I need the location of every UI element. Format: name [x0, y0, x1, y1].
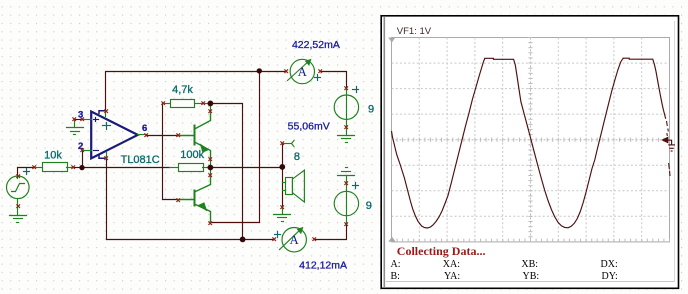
pin mark Q1 collector	[209, 110, 212, 113]
pin mark op-amp pin4	[105, 157, 108, 160]
wire bottom rail from op-amp pin4 riser to ammeter AM2	[107, 159, 275, 240]
plus at AM2	[275, 234, 281, 236]
bottom edge axis ticks	[392, 239, 670, 242]
ground below speaker	[274, 208, 291, 222]
scope 3D inner shading left band	[383, 17, 385, 287]
trigger arrow marker	[661, 137, 668, 144]
ammeter AM2	[280, 228, 307, 252]
svg-text:55,06mV: 55,06mV	[288, 120, 330, 132]
svg-text:VF1: 1V: VF1: 1V	[397, 26, 432, 37]
ground below generator	[10, 207, 27, 223]
wire node A up to op-amp pin 2	[82, 151, 84, 168]
output node junction	[208, 165, 214, 171]
voltage generator VG1	[6, 176, 29, 207]
plus at battery V2	[353, 185, 359, 187]
pin mark AM2 left	[273, 238, 276, 241]
svg-text:DX:: DX:	[601, 259, 618, 270]
svg-text:YA:: YA:	[444, 271, 460, 282]
pin mark Q2 collector	[209, 174, 212, 177]
scope outer box	[381, 16, 678, 289]
plus at AM1	[315, 77, 321, 79]
wire generator VG1 to resistor R1	[18, 168, 35, 177]
battery V2	[334, 183, 358, 224]
pin7 arrow glyph	[99, 111, 104, 114]
table text row 2	[391, 271, 618, 282]
svg-text:XA:: XA:	[443, 259, 460, 270]
Q1 emitter arrowhead	[200, 143, 210, 152]
op-amp U1 TL081C	[82, 111, 147, 159]
center horizontal axis with ticks	[392, 138, 670, 142]
speaker SPK	[283, 170, 305, 202]
teal plus marks	[24, 75, 359, 238]
svg-text:DY:: DY:	[602, 271, 618, 282]
minus mark at pin2	[94, 150, 99, 152]
trigger marker mini ground	[668, 140, 675, 151]
pin2 stub	[83, 150, 92, 152]
waveform trace	[392, 58, 666, 228]
resistor R3 100k	[170, 164, 211, 172]
pin mark R1 left	[33, 166, 36, 169]
pin mark R2 left	[162, 102, 165, 105]
pin mark gnd at pin3	[73, 118, 76, 121]
plus at battery V1	[353, 89, 359, 91]
pin mark speaker ground	[281, 206, 284, 209]
pin mark op-amp pin3	[81, 118, 84, 121]
svg-text:412,12mA: 412,12mA	[299, 260, 347, 272]
ground at op-amp pin 3	[67, 120, 84, 135]
wire op-amp pin6 to Q1 base	[147, 135, 178, 137]
svg-text:8: 8	[294, 151, 300, 163]
pin mark AM1 left	[285, 70, 288, 73]
pin mark Q2 base	[177, 199, 180, 202]
svg-text:TL081C: TL081C	[121, 154, 160, 166]
wire 4.7k right junction to bottom rail riser	[211, 104, 243, 240]
transistor Q2 PNP	[178, 176, 211, 223]
wire from ammeter AM1 right to battery V1 top	[321, 72, 347, 89]
pin mark AM1 right	[319, 70, 322, 73]
junction 4.7k right	[208, 101, 214, 107]
svg-text:422,52mA: 422,52mA	[292, 39, 340, 51]
node A junction	[79, 165, 84, 170]
wire pin3 ground to op-amp pin 3	[75, 119, 82, 121]
plus mark at pin3	[94, 118, 99, 122]
svg-text:9: 9	[366, 200, 372, 212]
plot area	[392, 38, 670, 242]
pin mark Q1 emitter	[209, 158, 212, 161]
transistor Q1 NPN	[178, 112, 211, 160]
pin mark AM2 right	[313, 238, 316, 241]
pin mark R1 right	[72, 166, 75, 169]
AM1 arrowhead	[305, 59, 312, 66]
pin x marks	[17, 70, 348, 241]
wire speaker node down to speaker and ground	[282, 167, 284, 208]
ammeter AM1	[288, 59, 315, 83]
pin mark voltage probe	[281, 142, 284, 145]
pin4 arrow glyph	[99, 156, 104, 159]
speaker node junction	[279, 164, 285, 170]
pin3 stub	[82, 119, 92, 121]
resistor R2 4,7k	[163, 100, 211, 108]
svg-text:10k: 10k	[44, 149, 62, 161]
pin mark op-amp pin2	[81, 149, 84, 152]
axis marker triangle top-left	[388, 38, 395, 43]
svg-text:YB:: YB:	[523, 271, 540, 282]
waveform edge dashes	[667, 121, 671, 176]
pin mark generator bottom	[17, 205, 20, 208]
svg-text:B:: B:	[391, 271, 400, 282]
AM2 arrowhead	[297, 227, 304, 234]
wire 4.7k left pin down to Q2 base	[163, 104, 178, 200]
pin6 stub	[138, 134, 147, 136]
grid horizontal lines	[392, 63, 670, 216]
pin mark V2 bottom	[345, 223, 348, 226]
pin mark V1 top	[345, 87, 348, 90]
plus at generator	[24, 171, 30, 173]
scope content area light right edge	[674, 21, 676, 282]
pin mark V2 top	[345, 182, 348, 185]
axis marker triangle bottom-left	[388, 237, 395, 242]
table separator line bottom	[386, 281, 675, 283]
teal plus inside op-amp	[103, 123, 111, 130]
svg-text:100k: 100k	[180, 149, 204, 161]
svg-text:XB:: XB:	[521, 259, 538, 270]
resistor R1 10k	[35, 163, 74, 172]
pin4 stub	[106, 153, 108, 159]
pin mark op-amp pin7	[105, 110, 108, 113]
svg-text:Collecting Data...: Collecting Data...	[397, 244, 486, 258]
top rail junction	[257, 68, 262, 73]
pin mark R2 right	[202, 102, 205, 105]
junction dots	[79, 68, 285, 242]
pin mark Q2 emitter	[209, 222, 212, 225]
voltage pin probe at output	[283, 141, 295, 147]
svg-text:A:: A:	[391, 259, 401, 270]
svg-text:4,7k: 4,7k	[172, 84, 193, 96]
bottom rail junction	[240, 237, 246, 243]
pin mark V1 bottom	[345, 126, 348, 129]
pin mark Q1 base	[177, 134, 180, 137]
ground below battery V1	[338, 128, 355, 143]
battery V1	[334, 89, 358, 128]
svg-text:9: 9	[368, 103, 374, 115]
center vertical axis with ticks	[528, 38, 532, 242]
pin mark op-amp pin6	[145, 134, 148, 137]
svg-text:6: 6	[142, 123, 147, 134]
wire from ammeter AM2 right to battery V2 bottom	[315, 224, 347, 240]
wire top rail from op-amp pin7 riser to ammeter AM1	[106, 72, 287, 111]
table text row 1	[391, 259, 618, 270]
wire R1 to node A (inverting input node)	[74, 167, 83, 169]
Q2 emitter arrowhead	[198, 202, 208, 211]
pin7 stub	[105, 111, 107, 117]
pin mark generator top	[17, 175, 20, 178]
svg-text:A: A	[298, 65, 307, 79]
wire output node to speaker node	[211, 167, 283, 169]
wire node A to resistor R3 100k left pin	[83, 167, 170, 169]
wire speaker node up to voltage pin	[282, 144, 284, 167]
inverted ground above battery V2	[338, 168, 355, 183]
grid vertical lines	[419, 38, 641, 242]
svg-text:A: A	[290, 233, 299, 247]
output node stubs between Q1/Q2 and node	[210, 104, 212, 176]
wire from top rail junction down to Q2 emitter	[211, 71, 260, 223]
OSCILLOSCOPE PANEL	[381, 16, 678, 289]
